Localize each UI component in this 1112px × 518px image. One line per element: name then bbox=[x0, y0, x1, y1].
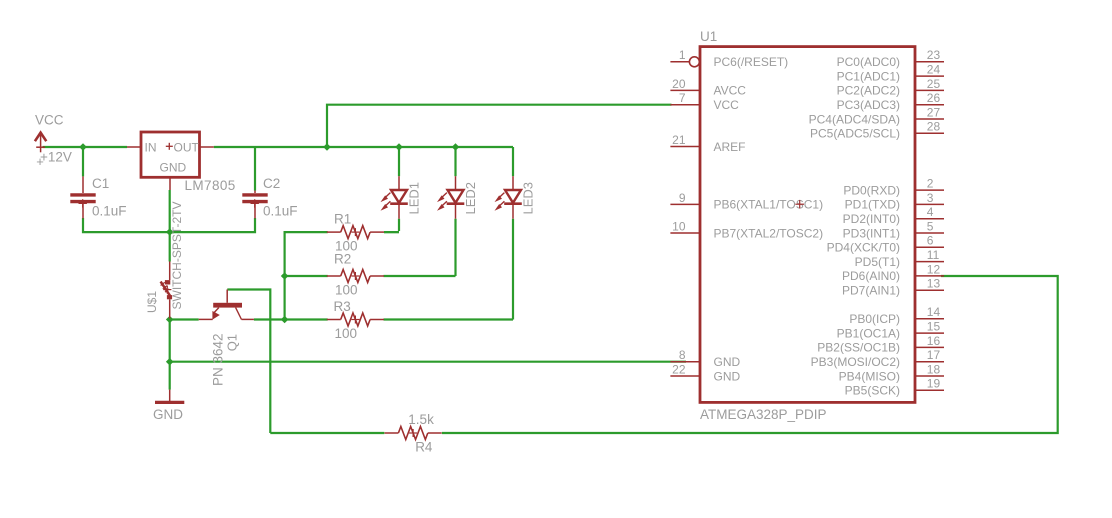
svg-text:PB5(SCK): PB5(SCK) bbox=[845, 384, 900, 398]
svg-text:7: 7 bbox=[679, 91, 686, 105]
svg-text:C2: C2 bbox=[263, 176, 280, 191]
svg-text:22: 22 bbox=[672, 362, 686, 376]
svg-text:10: 10 bbox=[672, 219, 686, 233]
svg-text:3: 3 bbox=[927, 191, 934, 205]
svg-text:PD6(AIN0): PD6(AIN0) bbox=[842, 269, 900, 283]
svg-text:PC1(ADC1): PC1(ADC1) bbox=[837, 69, 900, 83]
svg-text:26: 26 bbox=[927, 91, 941, 105]
svg-text:PB7(XTAL2/TOSC2): PB7(XTAL2/TOSC2) bbox=[714, 226, 824, 240]
svg-text:PN 3642: PN 3642 bbox=[211, 333, 226, 386]
svg-text:PD2(INT0): PD2(INT0) bbox=[843, 212, 900, 226]
svg-text:20: 20 bbox=[672, 77, 686, 91]
svg-text:Q1: Q1 bbox=[225, 334, 240, 351]
svg-text:2: 2 bbox=[927, 177, 934, 191]
svg-text:25: 25 bbox=[927, 77, 941, 91]
svg-text:15: 15 bbox=[927, 320, 941, 334]
svg-text:19: 19 bbox=[927, 377, 941, 391]
svg-text:24: 24 bbox=[927, 63, 941, 77]
svg-text:PD5(T1): PD5(T1) bbox=[855, 255, 900, 269]
svg-text:23: 23 bbox=[927, 48, 941, 62]
svg-text:PB0(ICP): PB0(ICP) bbox=[849, 312, 900, 326]
svg-text:R1: R1 bbox=[334, 211, 351, 226]
svg-text:+: + bbox=[36, 154, 44, 169]
svg-text:16: 16 bbox=[927, 334, 941, 348]
svg-text:PC3(ADC3): PC3(ADC3) bbox=[837, 98, 900, 112]
svg-text:13: 13 bbox=[927, 277, 941, 291]
svg-text:PC6(/RESET): PC6(/RESET) bbox=[714, 55, 789, 69]
svg-text:12: 12 bbox=[927, 262, 941, 276]
svg-text:PD7(AIN1): PD7(AIN1) bbox=[842, 284, 900, 298]
svg-text:R3: R3 bbox=[334, 299, 351, 314]
svg-text:14: 14 bbox=[927, 305, 941, 319]
svg-text:5: 5 bbox=[927, 219, 934, 233]
svg-text:PB1(OC1A): PB1(OC1A) bbox=[837, 326, 900, 340]
svg-text:U1: U1 bbox=[700, 29, 717, 44]
svg-text:27: 27 bbox=[927, 105, 941, 119]
svg-text:PB4(MISO): PB4(MISO) bbox=[839, 369, 900, 383]
svg-text:GND: GND bbox=[153, 407, 183, 422]
svg-text:PC5(ADC5/SCL): PC5(ADC5/SCL) bbox=[810, 127, 900, 141]
svg-text:100: 100 bbox=[335, 283, 358, 298]
svg-text:PD3(INT1): PD3(INT1) bbox=[843, 226, 900, 240]
svg-text:AREF: AREF bbox=[714, 140, 746, 154]
svg-text:R4: R4 bbox=[415, 440, 433, 455]
svg-text:28: 28 bbox=[927, 120, 941, 134]
svg-text:AVCC: AVCC bbox=[714, 84, 747, 98]
svg-text:VCC: VCC bbox=[714, 98, 740, 112]
svg-text:PB3(MOSI/OC2): PB3(MOSI/OC2) bbox=[811, 355, 900, 369]
svg-text:PC0(ADC0): PC0(ADC0) bbox=[837, 55, 900, 69]
svg-text:+12V: +12V bbox=[40, 150, 72, 165]
svg-text:SWITCH-SPST-2TV: SWITCH-SPST-2TV bbox=[170, 201, 184, 309]
svg-text:4: 4 bbox=[927, 205, 934, 219]
svg-text:PD4(XCK/T0): PD4(XCK/T0) bbox=[827, 241, 900, 255]
svg-text:1.5k: 1.5k bbox=[408, 412, 434, 427]
svg-text:VCC: VCC bbox=[35, 112, 64, 127]
svg-text:0.1uF: 0.1uF bbox=[263, 203, 298, 218]
svg-text:PD0(RXD): PD0(RXD) bbox=[843, 183, 900, 197]
svg-text:6: 6 bbox=[927, 234, 934, 248]
svg-text:PC2(ADC2): PC2(ADC2) bbox=[837, 84, 900, 98]
svg-text:IN: IN bbox=[145, 140, 157, 154]
svg-text:U$1: U$1 bbox=[145, 291, 159, 313]
svg-text:17: 17 bbox=[927, 348, 941, 362]
svg-text:LED3: LED3 bbox=[521, 182, 536, 215]
svg-text:GND: GND bbox=[160, 160, 187, 174]
svg-text:R2: R2 bbox=[334, 251, 351, 266]
svg-text:18: 18 bbox=[927, 362, 941, 376]
svg-text:GND: GND bbox=[714, 369, 741, 383]
svg-text:100: 100 bbox=[335, 326, 358, 341]
svg-text:OUT: OUT bbox=[174, 140, 200, 154]
svg-text:PD1(TXD): PD1(TXD) bbox=[845, 198, 900, 212]
svg-text:8: 8 bbox=[679, 348, 686, 362]
svg-text:9: 9 bbox=[679, 191, 686, 205]
svg-text:LED1: LED1 bbox=[407, 182, 422, 215]
svg-text:0.1uF: 0.1uF bbox=[92, 203, 127, 218]
svg-text:1: 1 bbox=[679, 48, 686, 62]
svg-text:C1: C1 bbox=[92, 176, 109, 191]
svg-text:PC4(ADC4/SDA): PC4(ADC4/SDA) bbox=[809, 112, 900, 126]
svg-text:GND: GND bbox=[714, 355, 741, 369]
svg-text:LED2: LED2 bbox=[463, 182, 478, 215]
svg-text:PB6(XTAL1/TOSC1): PB6(XTAL1/TOSC1) bbox=[714, 198, 824, 212]
svg-text:11: 11 bbox=[927, 248, 940, 262]
svg-text:ATMEGA328P_PDIP: ATMEGA328P_PDIP bbox=[700, 407, 827, 422]
svg-text:21: 21 bbox=[672, 133, 686, 147]
svg-text:LM7805: LM7805 bbox=[185, 178, 236, 193]
svg-text:PB2(SS/OC1B): PB2(SS/OC1B) bbox=[817, 341, 900, 355]
